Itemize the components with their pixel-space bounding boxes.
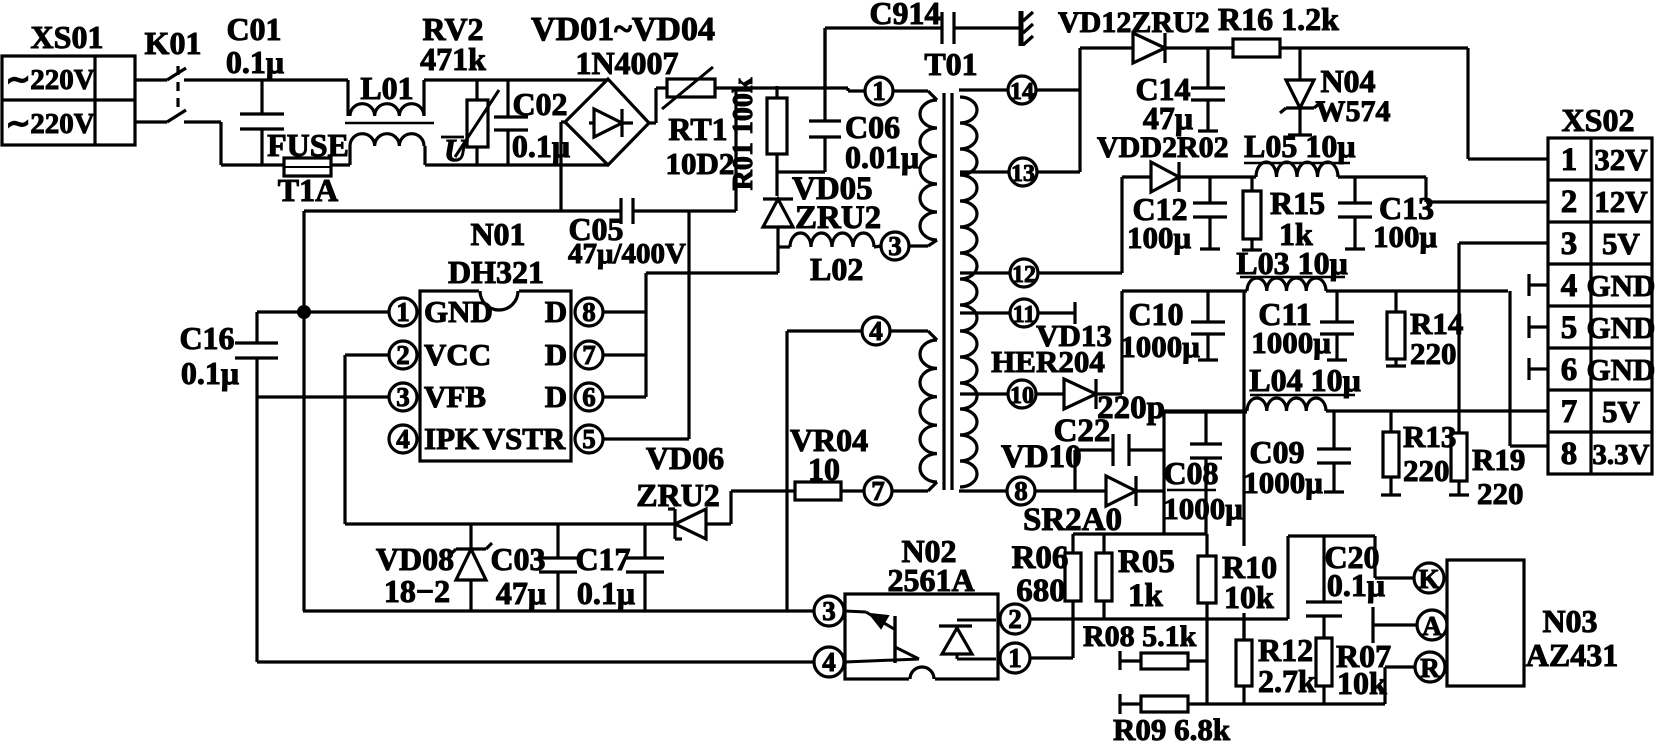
svg-text:D: D: [545, 379, 567, 414]
svg-text:K01: K01: [145, 25, 202, 61]
svg-text:L01: L01: [360, 70, 413, 106]
svg-text:0.1μ: 0.1μ: [181, 355, 239, 391]
svg-text:L05 10μ: L05 10μ: [1244, 128, 1355, 164]
svg-text:N01: N01: [470, 216, 525, 252]
svg-text:14: 14: [1010, 79, 1034, 105]
svg-text:N04: N04: [1320, 63, 1375, 99]
svg-text:7: 7: [871, 476, 885, 506]
svg-text:1: 1: [1008, 643, 1022, 673]
svg-text:VD01~VD04: VD01~VD04: [531, 11, 715, 48]
svg-text:N03: N03: [1542, 603, 1597, 639]
svg-text:220: 220: [1410, 336, 1457, 371]
svg-text:7: 7: [582, 340, 596, 370]
svg-text:∼220V: ∼220V: [6, 64, 95, 96]
svg-text:IPK: IPK: [424, 421, 479, 456]
svg-text:VCC: VCC: [424, 337, 491, 372]
svg-text:R01 100k: R01 100k: [728, 77, 759, 190]
svg-text:3: 3: [822, 596, 836, 626]
svg-text:AZ431: AZ431: [1526, 637, 1618, 673]
svg-text:4: 4: [869, 316, 883, 346]
svg-text:32V: 32V: [1594, 142, 1648, 177]
svg-text:C01: C01: [226, 11, 281, 47]
svg-text:7: 7: [1561, 394, 1578, 430]
svg-text:47μ/400V: 47μ/400V: [568, 238, 686, 270]
svg-text:3: 3: [888, 231, 902, 261]
svg-text:3.3V: 3.3V: [1592, 439, 1649, 471]
svg-text:VDD2R02: VDD2R02: [1097, 131, 1229, 164]
svg-text:12: 12: [1012, 262, 1036, 288]
svg-text:1000μ: 1000μ: [1243, 465, 1323, 500]
svg-text:R06: R06: [1012, 540, 1069, 576]
svg-text:3: 3: [396, 382, 410, 412]
svg-text:FUSE: FUSE: [267, 127, 349, 163]
svg-text:R: R: [1420, 653, 1440, 683]
svg-text:VSTR: VSTR: [483, 421, 566, 456]
svg-text:DH321: DH321: [448, 254, 544, 290]
svg-text:R13: R13: [1403, 419, 1456, 454]
svg-text:13: 13: [1011, 161, 1035, 187]
svg-text:3: 3: [1561, 226, 1578, 262]
svg-text:GND: GND: [1587, 268, 1656, 303]
svg-text:R16 1.2k: R16 1.2k: [1218, 1, 1339, 37]
svg-text:1000μ: 1000μ: [1120, 329, 1200, 364]
svg-text:GND: GND: [424, 294, 493, 329]
svg-text:100μ: 100μ: [1373, 219, 1438, 254]
svg-text:XS01: XS01: [31, 19, 104, 55]
svg-text:1k: 1k: [1128, 578, 1164, 614]
svg-text:5: 5: [1561, 310, 1578, 346]
svg-text:4: 4: [1561, 268, 1578, 304]
svg-text:2: 2: [396, 340, 410, 370]
svg-text:5V: 5V: [1602, 394, 1641, 429]
svg-text:6: 6: [1561, 352, 1578, 388]
svg-text:5: 5: [582, 424, 596, 454]
svg-text:6: 6: [582, 382, 596, 412]
svg-text:2.7k: 2.7k: [1258, 663, 1316, 699]
svg-text:∼220V: ∼220V: [6, 108, 95, 140]
svg-text:D: D: [545, 294, 567, 329]
svg-text:W574: W574: [1316, 95, 1391, 128]
svg-text:1000μ: 1000μ: [1251, 325, 1331, 360]
svg-text:10k: 10k: [1224, 579, 1274, 615]
svg-text:R19: R19: [1472, 442, 1525, 477]
svg-text:471k: 471k: [420, 41, 486, 77]
svg-text:L04 10μ: L04 10μ: [1249, 362, 1360, 398]
svg-text:R09 6.8k: R09 6.8k: [1113, 712, 1231, 742]
svg-text:10: 10: [808, 451, 840, 487]
svg-text:SR2A0: SR2A0: [1023, 502, 1122, 538]
svg-text:XS02: XS02: [1562, 102, 1635, 138]
svg-text:8: 8: [1561, 436, 1578, 472]
svg-text:R08 5.1k: R08 5.1k: [1083, 620, 1197, 653]
svg-text:0.01μ: 0.01μ: [845, 139, 919, 175]
svg-text:4: 4: [396, 424, 410, 454]
svg-text:1N4007: 1N4007: [575, 45, 678, 81]
svg-text:1: 1: [1561, 142, 1578, 178]
svg-text:ZRU2: ZRU2: [636, 477, 720, 513]
svg-text:VD10: VD10: [1001, 439, 1082, 475]
svg-text:T01: T01: [924, 46, 977, 82]
svg-text:1: 1: [396, 297, 410, 327]
svg-text:12V: 12V: [1594, 184, 1648, 219]
svg-text:10D2: 10D2: [666, 146, 735, 181]
svg-text:10k: 10k: [1337, 665, 1387, 701]
svg-text:GND: GND: [1587, 310, 1656, 345]
svg-text:2: 2: [1561, 184, 1578, 220]
svg-text:5V: 5V: [1602, 226, 1641, 261]
svg-text:HER204: HER204: [991, 344, 1105, 379]
svg-text:1000μ: 1000μ: [1163, 491, 1243, 526]
svg-text:VD08: VD08: [376, 541, 454, 577]
svg-text:4: 4: [822, 647, 836, 677]
svg-text:47μ: 47μ: [496, 575, 546, 611]
svg-text:D: D: [545, 337, 567, 372]
svg-text:C914: C914: [869, 0, 940, 31]
svg-text:VD06: VD06: [646, 440, 724, 476]
svg-text:VFB: VFB: [424, 379, 486, 414]
svg-text:C16: C16: [179, 320, 234, 356]
svg-text:C02: C02: [512, 86, 567, 122]
svg-text:A: A: [1422, 611, 1442, 641]
svg-text:0.1μ: 0.1μ: [577, 575, 635, 611]
svg-text:0.1μ: 0.1μ: [226, 44, 284, 80]
svg-text:C08: C08: [1163, 455, 1218, 491]
svg-text:18−2: 18−2: [384, 573, 450, 609]
svg-text:RT1: RT1: [668, 111, 727, 147]
svg-text:R05: R05: [1118, 544, 1175, 580]
svg-text:220: 220: [1403, 453, 1450, 488]
svg-text:11: 11: [1013, 302, 1036, 328]
svg-text:8: 8: [582, 297, 596, 327]
svg-text:1: 1: [872, 76, 886, 106]
svg-text:T1A: T1A: [278, 172, 338, 208]
svg-text:C03: C03: [490, 541, 545, 577]
svg-text:K: K: [1418, 564, 1439, 594]
svg-text:C17: C17: [575, 541, 630, 577]
svg-text:L03 10μ: L03 10μ: [1236, 245, 1347, 281]
svg-text:100μ: 100μ: [1127, 220, 1192, 255]
svg-text:680: 680: [1016, 573, 1066, 609]
svg-text:0.1μ: 0.1μ: [1327, 567, 1385, 603]
svg-text:ZRU2: ZRU2: [795, 200, 881, 236]
svg-text:C10: C10: [1128, 296, 1183, 332]
svg-text:GND: GND: [1587, 352, 1656, 387]
svg-text:220: 220: [1477, 476, 1524, 511]
svg-text:L02: L02: [810, 251, 863, 287]
svg-text:10: 10: [1010, 383, 1034, 409]
